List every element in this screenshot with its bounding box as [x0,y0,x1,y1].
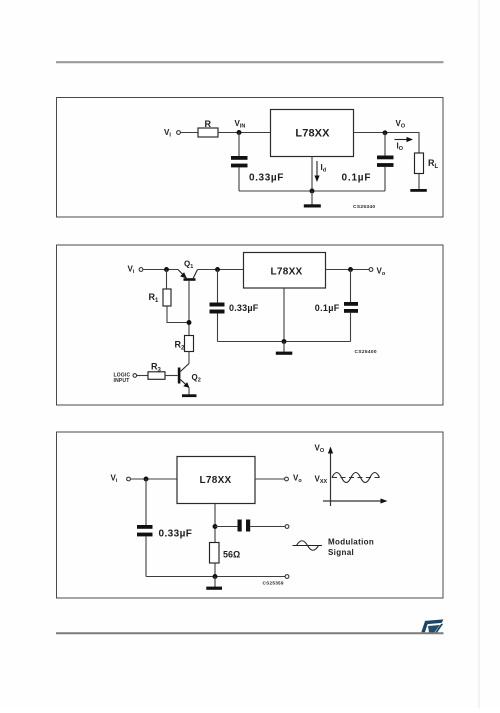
junction dot bottom rail (circuit 3) [213,574,218,579]
wire R2 bottom to Q2 collector [188,352,190,364]
right page-edge scan line [478,0,480,708]
wire GND pin of U3 [214,504,216,543]
svg-text:0.1µF: 0.1µF [315,303,340,313]
bottom rail wire (circuit 1) [239,190,385,192]
capacitor C5 0.33uF [137,525,153,529]
svg-text:INPUT: INPUT [114,378,130,384]
junction dot adj pin [213,524,218,529]
wire C3 top [217,270,219,303]
capacitor C4 0.1uF [344,302,358,306]
top header rule [56,61,444,63]
terminal bottom right [285,575,289,579]
terminal modulation in [285,525,289,529]
svg-text:CS25400: CS25400 [355,349,377,355]
wire C5 top [145,479,147,525]
ground RL [410,189,427,192]
wire R1 top [166,270,168,290]
wire R4 bottom [214,563,216,577]
svg-text:L78XX: L78XX [270,266,302,277]
terminal Vi (circuit 1) [177,131,181,135]
wire Vi to L78XX [131,478,177,480]
wire Vi to R [181,132,198,134]
bottom rail wire (circuit 3) [146,576,285,578]
wire VIN down to C1 [238,133,240,157]
svg-text:0.33µF: 0.33µF [159,529,193,540]
regulator U1 L78XX [271,110,354,157]
waveform dashed midline [332,477,380,479]
svg-text:L78XX: L78XX [295,128,330,140]
capacitor C2 0.1uF [377,156,394,160]
resistor R [198,128,218,137]
figure frame box 1 [57,98,444,218]
ground (circuit 2) [283,342,285,352]
wire C2 to bottom rail [384,167,386,191]
waveform vertical axis [330,453,332,507]
wire to coupling cap [215,526,238,528]
svg-text:L78XX: L78XX [199,475,231,486]
regulator U2 L78XX [244,253,326,289]
wire VO down to C2 [384,133,386,156]
modulation signal sine icon [293,545,323,547]
transistor Q1 (PNP) [178,270,198,281]
waveform horizontal axis [323,500,382,502]
terminal Vi (circuit 2) [139,268,143,272]
wire C1 to bottom rail [238,167,240,191]
junction dot at C4 top [348,267,353,272]
wire R to L78XX input [218,132,271,134]
node VIN junction dot [237,130,242,135]
wire C5 bottom [145,536,147,576]
wire logic input to R3 [137,375,148,377]
junction dot bottom rail [310,189,315,194]
wire Vi to Q1 emitter [143,269,178,271]
resistor R3 [148,372,165,380]
terminal Vi (circuit 3) [127,477,131,481]
terminal logic input [133,374,137,378]
junction dot at C5 top [144,477,149,482]
wire C4 top [350,270,352,303]
wire GND pin of U1 [311,157,313,192]
wire L78XX output to Vo [255,478,284,480]
bottom rail wire (circuit 2) [218,341,351,343]
wire R3 to Q2 base [165,375,178,377]
svg-text:Signal: Signal [328,548,354,557]
wire C3 bottom [217,314,219,342]
capacitor C6 coupling [238,520,242,532]
transistor Q2 (NPN) [178,364,190,388]
ground (circuit 1 main) [311,191,313,205]
wire Q2 emitter to ground [188,388,190,395]
wire R1 bottom to base node [167,306,189,323]
wire C6 to terminal [250,526,285,528]
wire L78XX output to Vo [326,269,370,271]
resistor R2 [185,336,194,352]
wire GND pin of U2 [283,288,285,342]
terminal Vo (circuit 3) [285,477,289,481]
figure frame box 2 [57,245,444,405]
svg-text:CS25340: CS25340 [353,204,375,210]
wire Q1 collector to L78XX input [198,269,244,271]
terminal Vo (circuit 2) [369,268,373,272]
capacitor C3 0.33uF [210,303,225,307]
junction dot at C3 top [215,267,220,272]
arrow Id [316,161,318,178]
waveform sine [332,473,380,483]
resistor R4 56ohm [210,543,220,564]
svg-text:Modulation: Modulation [328,538,374,547]
node VO junction dot [383,130,388,135]
svg-text:56Ω: 56Ω [223,550,240,560]
svg-text:0.1µF: 0.1µF [342,173,372,184]
arrow IO [395,139,409,141]
svg-text:CS25359: CS25359 [263,581,284,586]
resistor RL [415,153,424,174]
junction dot bottom rail (circuit 2) [282,339,287,344]
ST logo [421,619,443,632]
wire L78XX output to corner [354,133,420,154]
junction dot at R1 top [164,267,169,272]
svg-text:0.33µF: 0.33µF [229,303,259,313]
bottom footer rule [56,632,444,634]
wire C4 bottom [350,313,352,342]
svg-text:R: R [204,119,211,129]
junction dot base node [187,320,192,325]
figure frame box 3 [57,432,444,598]
capacitor C1 0.33uF [231,156,248,160]
regulator U3 L78XX [177,457,255,504]
svg-text:0.33µF: 0.33µF [249,173,284,184]
ground Q2 [182,394,197,397]
resistor R1 [163,289,171,306]
ground (circuit 3) [214,577,216,587]
wire Q1 base down [188,281,190,336]
wire RL to ground [418,174,420,190]
